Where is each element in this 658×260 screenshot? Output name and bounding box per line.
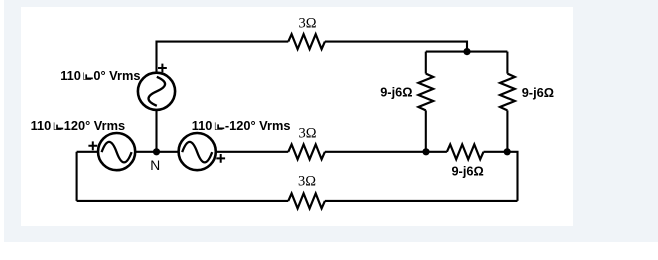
svg-text:110∟0° Vrms: 110∟0° Vrms <box>60 68 140 83</box>
wire middle right end down <box>484 152 518 201</box>
wire Van bottom to node N <box>155 110 157 152</box>
wire left side down <box>76 152 78 201</box>
wire bottom right <box>325 200 518 202</box>
source Van top circle <box>138 73 175 110</box>
resistor 9-j6ohm right vertical <box>500 74 515 111</box>
svg-text:N: N <box>150 158 160 173</box>
source Vcn right circle <box>179 133 216 170</box>
node junction right of bottom load <box>504 148 511 155</box>
wire left load branch lower <box>425 110 427 151</box>
wire top right to load <box>325 42 467 52</box>
polarity plus Vcn <box>216 154 225 163</box>
angle symbol in label Van <box>86 74 93 78</box>
svg-text:9-j6Ω: 9-j6Ω <box>522 85 554 100</box>
svg-text:110∟120° Vrms: 110∟120° Vrms <box>31 118 126 133</box>
svg-text:3Ω: 3Ω <box>298 174 316 190</box>
resistor 3ohm middle line <box>288 144 325 159</box>
wire left load branch upper <box>425 52 427 74</box>
svg-text:9-j6Ω: 9-j6Ω <box>380 85 412 100</box>
resistor 9-j6ohm left vertical <box>418 74 433 111</box>
angle symbol in label Vcn <box>218 124 224 128</box>
source Vbn left circle <box>98 133 135 170</box>
angle symbol in label Vbn <box>57 125 63 129</box>
wire top from source Van to resistor <box>157 42 289 73</box>
wire between Vbn and Vcn <box>135 151 178 153</box>
source Vbn sine <box>102 142 132 163</box>
source Van sine <box>149 77 166 106</box>
resistor 3ohm bottom line <box>288 194 325 209</box>
wire middle left end <box>77 151 98 153</box>
wire right load branch upper <box>506 52 508 74</box>
resistor 9-j6ohm bottom horizontal <box>447 144 484 159</box>
wire middle from Vcn to resistor <box>216 151 288 153</box>
polarity plus Vbn <box>88 141 97 150</box>
svg-text:3Ω: 3Ω <box>298 126 316 142</box>
svg-text:9-j6Ω: 9-j6Ω <box>451 164 483 179</box>
svg-text:3Ω: 3Ω <box>298 16 316 32</box>
wire right load branch lower <box>506 110 508 151</box>
svg-text:110∟-120° Vrms: 110∟-120° Vrms <box>192 118 291 133</box>
source Vcn sine <box>182 142 212 163</box>
polarity plus Van <box>158 64 167 73</box>
node junction left of bottom load <box>422 148 429 155</box>
wire top rail of parallel loads <box>426 51 508 53</box>
node junction top <box>463 48 470 55</box>
node N <box>153 148 160 155</box>
wire middle to bottom load <box>325 151 447 153</box>
resistor 3ohm top line <box>288 34 325 49</box>
wire bottom left <box>77 200 289 202</box>
